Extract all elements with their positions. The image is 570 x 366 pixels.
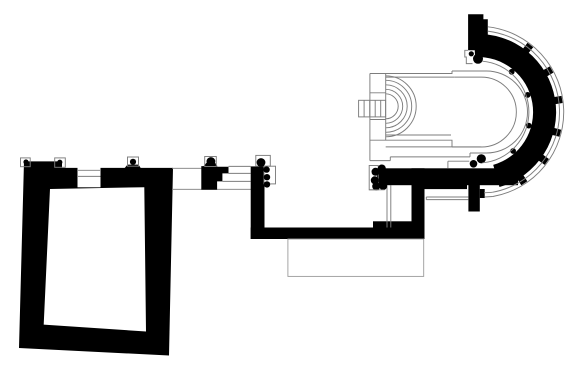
U-court east wall <box>412 168 425 239</box>
south terrace outline <box>288 239 424 276</box>
column dot NW corner <box>23 159 28 164</box>
temple gallery inner curve <box>452 77 516 147</box>
portico west dot 3 <box>371 176 379 184</box>
bar-arc junction dot upper <box>477 154 486 163</box>
gallery half-column dot 2 <box>525 92 531 98</box>
intercolumn line lower <box>222 180 250 182</box>
U-court pier plinth outline side <box>264 166 276 184</box>
exedra outer ring line inner <box>488 31 560 192</box>
buttress tick 2 <box>543 66 554 76</box>
U-court west wall <box>251 166 265 239</box>
U-pier column dot side 1 <box>263 166 269 172</box>
column plinth outline NE <box>128 157 139 166</box>
temple north wall outer <box>370 71 452 74</box>
portico west dot 5 <box>379 182 387 190</box>
apse arc 2 <box>386 80 412 132</box>
buttress tick 6 <box>517 175 527 186</box>
bar-arc junction dot lower <box>470 160 478 168</box>
exedra south stub pier <box>468 185 479 212</box>
portico west dot 1 <box>378 165 386 173</box>
north portico bar (thick wall to exedra) <box>377 168 518 185</box>
stylobate line upper (hall to pier) <box>172 167 202 169</box>
column pedestal NE on wall <box>125 165 141 168</box>
portico west column cluster outline <box>369 166 378 190</box>
apse arc 3 <box>386 85 408 128</box>
column dot north wall second <box>57 160 62 165</box>
pier P1 capital bump <box>204 163 218 167</box>
gallery half-column dot 1 <box>509 69 515 75</box>
buttress tick 1 <box>523 43 534 54</box>
portico west dot 4 <box>372 182 380 190</box>
portico bar deeper section <box>416 184 467 189</box>
gallery half-column dot 3 <box>526 123 532 129</box>
column plinth outline NW corner <box>21 158 31 167</box>
gallery wall arc concentric <box>482 61 528 163</box>
exedra pier base dot small <box>469 51 474 56</box>
pier base step outline <box>465 50 473 63</box>
pier P1 column dot <box>207 157 216 166</box>
exedra pier base dot large <box>473 54 483 64</box>
buttress tick 5 <box>538 154 549 165</box>
buttress tick 4 <box>552 128 562 137</box>
temple north wall inner <box>386 76 455 78</box>
terrace step lines south of temple <box>369 147 481 200</box>
U-court pier plinth outline top <box>256 155 270 166</box>
temple gallery outer curve <box>452 71 528 153</box>
exedra outer ring line outer <box>488 27 564 197</box>
colonnade pier P1 body <box>201 166 228 190</box>
temple south wall outer <box>370 140 452 147</box>
portico line west <box>386 185 388 227</box>
portico line east <box>390 185 392 227</box>
intercolumn line top <box>229 165 251 167</box>
hall outer wall (great rectangular room, thick black masonry) <box>19 161 173 355</box>
hall doorway opening (white gap in north wall) <box>78 167 101 187</box>
buttress tick 3 <box>554 96 563 104</box>
annex cross lines <box>370 93 386 120</box>
apse arc 5 <box>386 94 398 119</box>
apse arc 1 <box>386 76 416 137</box>
doorway threshold line upper <box>77 169 101 171</box>
portico west dot 2 <box>372 168 380 176</box>
U-pier column dot top <box>257 158 266 167</box>
stylobate line lower (hall to U-pier) <box>172 188 252 190</box>
exedra north pier <box>468 14 488 50</box>
exedra black annular wall <box>474 34 556 187</box>
stair treads <box>364 100 381 117</box>
doorway threshold line lower <box>77 175 101 177</box>
U-pier column dot side 2 <box>264 174 270 180</box>
pier P1 plinth outline <box>205 157 217 167</box>
column dot NE <box>130 159 136 165</box>
U-court south wall <box>251 228 424 240</box>
column plinth outline north wall second <box>55 158 66 167</box>
U-court south wall raised right section <box>373 221 424 229</box>
outer ring connector bottom <box>484 192 493 197</box>
intercolumn line mid <box>229 172 251 174</box>
apse arc 4 <box>386 89 403 123</box>
temple south wall inner <box>386 134 451 136</box>
stub step block <box>480 189 485 198</box>
door jamb block <box>101 172 106 178</box>
U-pier column dot side 3 <box>264 181 270 187</box>
gallery half-column dot 4 <box>510 148 516 154</box>
west stair block <box>359 100 386 117</box>
temple annex west wall <box>370 74 386 161</box>
